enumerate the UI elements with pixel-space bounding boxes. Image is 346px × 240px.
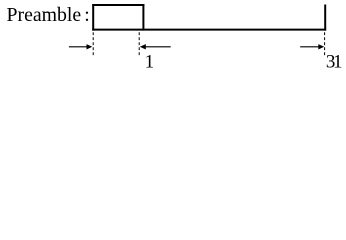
svg-text::: : xyxy=(84,4,90,26)
wire: waveform baseline (low level) xyxy=(92,29,326,31)
wire: final rising edge at right xyxy=(324,5,326,31)
wire: pulse falling edge xyxy=(142,4,144,30)
svg-text:Preamble: Preamble xyxy=(7,4,82,26)
arrow pointing left at slot 1 boundary xyxy=(140,44,171,49)
wire: pulse top (high level) xyxy=(92,4,144,6)
node: dashed marker line at slot 0 boundary xyxy=(92,32,94,56)
svg-text:31: 31 xyxy=(326,52,342,73)
svg-text:1: 1 xyxy=(145,52,155,73)
arrow pointing right at slot 31 boundary xyxy=(300,44,324,49)
wire: pulse rising edge xyxy=(92,4,94,30)
node: dashed marker line at slot 31 boundary xyxy=(324,32,326,57)
node: dashed marker line at slot 1 boundary xyxy=(138,32,140,56)
arrow pointing right at slot 0 boundary xyxy=(69,44,92,49)
